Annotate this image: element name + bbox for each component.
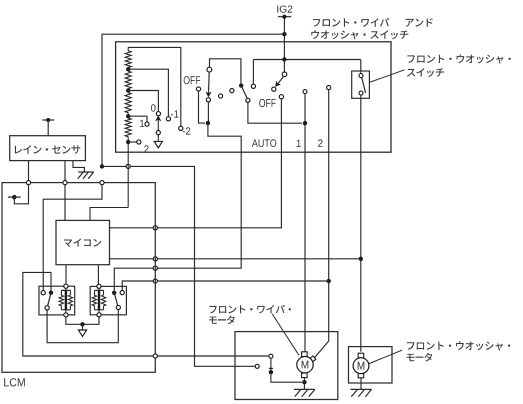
node IG2 terminal	[278, 16, 291, 18]
relay RY1 coil	[64, 284, 68, 288]
node junction IG2 branch	[282, 32, 286, 36]
node relay1 NO contact	[49, 291, 53, 295]
wire IG2 to switch commons	[253, 34, 360, 59]
node pin feed-LCM	[100, 181, 104, 185]
wire auto arm drop	[283, 60, 285, 73]
wire tap 1	[128, 116, 147, 122]
motor M1	[297, 357, 313, 373]
front wiper motor box	[235, 332, 338, 400]
node junction R2-R3	[126, 88, 130, 92]
microcomputer box	[56, 220, 110, 264]
wire motor2 to ground	[360, 378, 362, 390]
resistor R1	[125, 47, 131, 71]
LCM box	[2, 183, 155, 373]
label microcomputer	[64, 239, 101, 247]
node pivot wiper arm	[207, 67, 212, 72]
node junction switch common	[282, 57, 286, 61]
relay RY1 box	[39, 286, 75, 315]
label front wiper and washer switch line1	[313, 18, 389, 27]
label front washer motor line1	[407, 341, 510, 350]
node relay2 common contact	[112, 291, 116, 295]
node junction LCM feed	[100, 164, 104, 168]
node junction 1-lo	[303, 121, 307, 125]
label LCM	[4, 378, 25, 386]
wire micon to washer line	[110, 258, 361, 260]
node contact lo	[246, 98, 250, 102]
label 2	[318, 139, 323, 146]
node junction wiper out	[206, 121, 210, 125]
node junction R1-R2	[126, 67, 130, 71]
node contact common2	[239, 83, 243, 87]
wire rain pin1	[14, 161, 28, 204]
callout front washer motor	[369, 350, 402, 363]
node junction washer-LCM	[359, 257, 363, 261]
node pin relay2NO-LCM	[153, 279, 157, 283]
wire relay arms joined	[47, 310, 118, 343]
node washer contact top	[359, 74, 363, 78]
wire AUTO to micon	[110, 99, 282, 228]
wire 1 to motor top	[304, 94, 306, 352]
ground triangle relays	[78, 330, 86, 336]
ground wiper motor	[294, 388, 315, 390]
ground rain sensor	[78, 171, 94, 173]
node contact 1	[303, 90, 307, 94]
wire 2 to motor	[315, 90, 329, 358]
node junction tap2	[126, 140, 130, 144]
node pivot auto arm	[282, 72, 287, 77]
wire micon to coil2	[97, 265, 99, 285]
wiper switch arm2	[241, 86, 247, 99]
node washer contact bottom	[359, 91, 363, 95]
node contact OFF2	[272, 87, 276, 91]
label 1	[140, 120, 144, 127]
label IG2	[277, 6, 292, 13]
label rain sensor	[15, 145, 81, 154]
wire IG2 feed down-left to LCM	[102, 17, 284, 167]
front washer motor box	[349, 347, 393, 383]
node contact AUTO	[279, 95, 283, 99]
node pin washer-LCM edge	[153, 257, 157, 261]
wire lo to 1-line	[248, 102, 302, 123]
label front washer switch line2	[407, 68, 444, 77]
wire relay2 NO to 2-line	[122, 281, 329, 290]
wire ladder top to -2 tap	[128, 47, 181, 126]
node contact -2	[179, 126, 183, 130]
label OFF1	[184, 76, 200, 84]
relay2 arm	[114, 293, 118, 306]
label -1	[171, 110, 179, 117]
node pin wiperout-LCM edge	[153, 266, 157, 270]
rain sensor antenna	[42, 119, 54, 121]
washer switch arm	[362, 78, 366, 93]
wire motorA inner	[271, 358, 302, 382]
label front wiper motor line1	[209, 305, 291, 314]
node contact arc2	[230, 89, 234, 93]
node pin motorA-LCM edge	[153, 354, 157, 358]
label 2	[144, 145, 148, 152]
node contact 2	[137, 140, 141, 144]
node contact 0	[156, 112, 160, 116]
resistor R2	[125, 71, 131, 92]
motor M2	[353, 358, 369, 374]
wire OFF1 down	[199, 91, 206, 123]
front washer switch box	[352, 71, 370, 98]
node contact left	[251, 84, 255, 88]
node relay2 NO contact	[120, 291, 124, 295]
wire rain pin3 to ground	[73, 161, 84, 172]
wire tap 2	[128, 141, 137, 143]
label front wiper motor line2	[209, 316, 235, 325]
relay RY2 coil	[97, 284, 101, 288]
wire tap 0	[128, 91, 158, 112]
callout front washer switch	[369, 70, 404, 83]
ground washer motor	[351, 388, 372, 390]
node pin rain1-LCM	[26, 181, 30, 185]
motor M1 terminals	[302, 352, 308, 357]
label front washer switch line1	[407, 54, 510, 63]
node junction 2-relay	[327, 279, 331, 283]
wire motor1 to ground	[303, 378, 305, 390]
wire coil grounds join	[66, 317, 99, 324]
node pin AUTO-LCM	[153, 226, 157, 230]
wire bracket wiper arm	[210, 59, 241, 84]
node relay1 NC contact	[41, 291, 45, 295]
wire INT down	[207, 102, 209, 123]
wire to triangle	[82, 324, 84, 330]
label AUTO	[252, 139, 276, 147]
rain sensor box	[10, 136, 86, 161]
relay RY2 box	[90, 286, 126, 314]
wire washer switch to motor	[360, 95, 362, 351]
wire tap -1	[128, 69, 168, 117]
node pin rain2-LCM	[63, 181, 67, 185]
auto switch arm	[277, 77, 283, 85]
node terminal motor A	[269, 354, 273, 358]
sensor symbol in LCM	[12, 195, 16, 200]
node relay2 arm contact	[116, 305, 120, 309]
label line2	[311, 30, 408, 39]
node contact -1	[166, 117, 170, 121]
relay1 arm	[48, 293, 51, 306]
node connector on feed	[126, 164, 130, 168]
label -2	[183, 127, 191, 134]
node contact 2	[327, 86, 331, 90]
resistor R3	[125, 93, 131, 118]
front wiper and washer switch box	[116, 42, 391, 152]
node junction coil ground	[80, 322, 84, 326]
label 1	[297, 140, 301, 147]
wiper switch arm	[208, 72, 211, 94]
motor M2 terminals	[358, 353, 364, 358]
label 0	[151, 104, 156, 111]
callout front wiper motor	[272, 314, 299, 355]
label front washer motor line2	[407, 353, 433, 362]
node contact arc1	[219, 94, 223, 98]
node junction R3-R4	[126, 114, 130, 118]
wiper arm INT volume	[157, 117, 159, 141]
wire relay1 NO up-around to motor A	[23, 272, 269, 356]
wire micon to coil1	[65, 265, 67, 284]
wire feed to wiper motor B	[102, 166, 255, 366]
node relay1 arm contact	[45, 306, 49, 310]
node junction motor1 ground	[302, 380, 306, 384]
wire contact left drop	[252, 60, 254, 85]
node junction motorA inner	[269, 370, 273, 374]
wire wiper out to relay2	[114, 123, 241, 290]
wire washer feed drop	[360, 60, 362, 74]
wire rain pin2 to micon	[64, 161, 66, 221]
resistor R4	[90, 118, 131, 220]
label OFF2	[259, 99, 275, 107]
wire LCM feed to relay1	[43, 185, 102, 291]
node contact INT	[206, 98, 210, 102]
node contact 1	[145, 122, 149, 126]
node terminal motor B	[255, 364, 259, 368]
node contact OFF1	[196, 87, 200, 91]
